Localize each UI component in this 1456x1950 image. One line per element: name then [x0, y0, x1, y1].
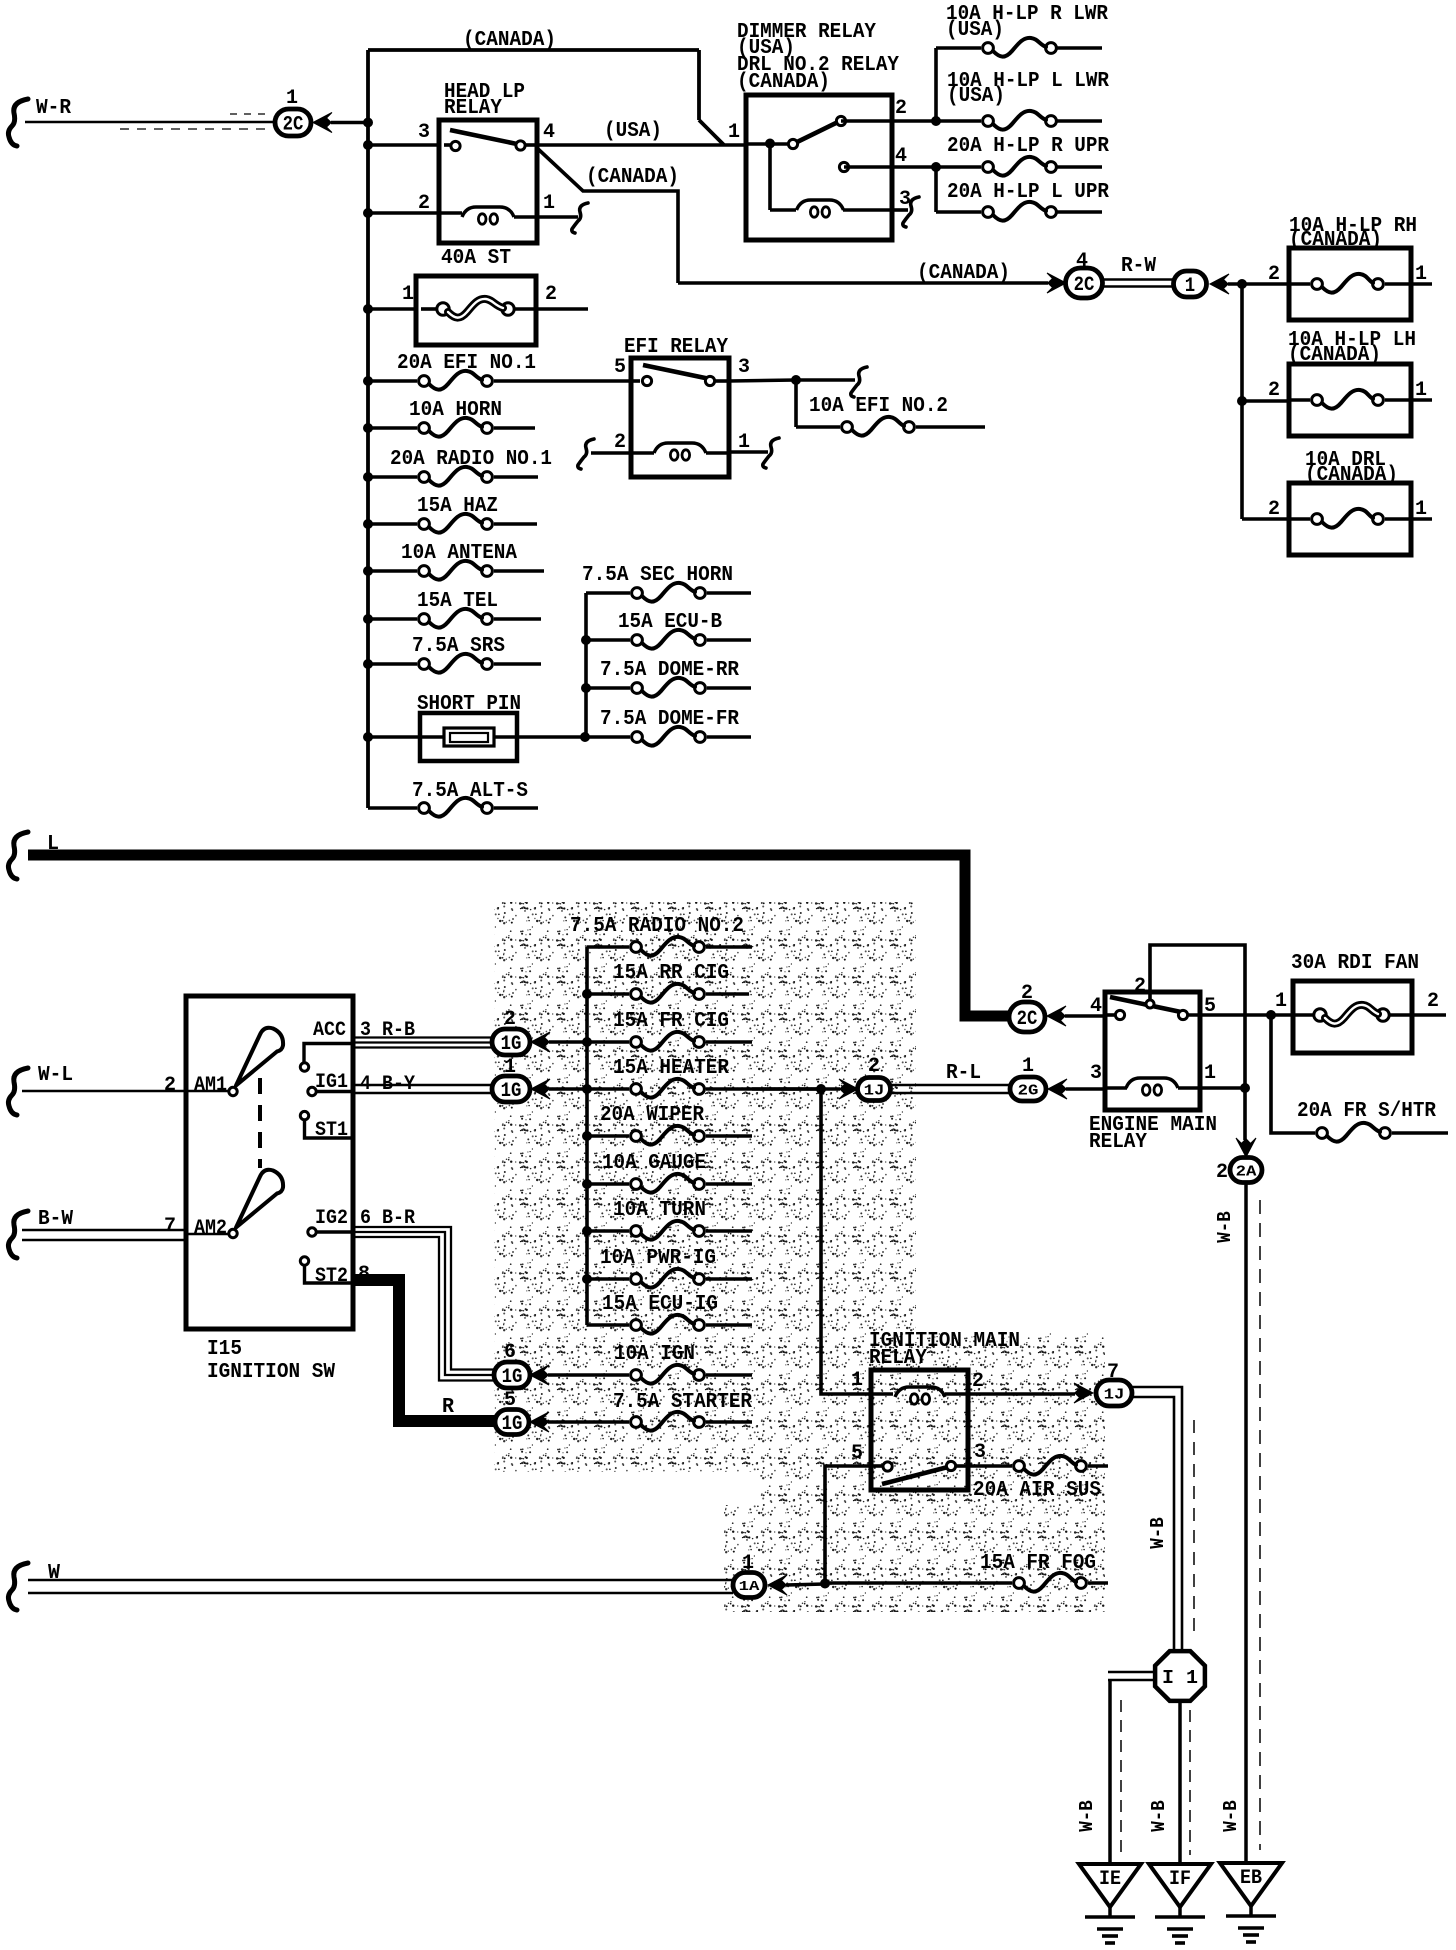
svg-text:7.5A DOME-FR: 7.5A DOME-FR: [600, 708, 739, 731]
svg-text:20A H-LP R UPR: 20A H-LP R UPR: [947, 135, 1109, 158]
svg-text:3: 3: [899, 188, 911, 211]
svg-text:AM1: AM1: [194, 1074, 227, 1097]
svg-text:10A TURN: 10A TURN: [613, 1199, 706, 1222]
svg-text:1: 1: [1415, 263, 1427, 286]
svg-text:ACC: ACC: [313, 1019, 346, 1042]
svg-text:RELAY: RELAY: [444, 97, 502, 120]
svg-text:2: 2: [545, 283, 557, 306]
svg-text:3: 3: [1090, 1062, 1102, 1085]
svg-text:1: 1: [402, 283, 414, 306]
svg-text:15A HEATER: 15A HEATER: [613, 1057, 729, 1080]
svg-text:(CANADA): (CANADA): [1305, 464, 1398, 487]
svg-text:1: 1: [286, 87, 298, 110]
svg-text:1G: 1G: [502, 1413, 523, 1436]
svg-text:W-R: W-R: [36, 97, 71, 120]
svg-text:1G: 1G: [501, 1033, 522, 1056]
svg-text:2: 2: [164, 1074, 176, 1097]
svg-text:7.5A SRS: 7.5A SRS: [412, 635, 505, 658]
svg-text:I15: I15: [207, 1338, 242, 1361]
svg-text:W-B: W-B: [1148, 1800, 1170, 1832]
svg-text:20A AIR SUS: 20A AIR SUS: [973, 1479, 1101, 1502]
svg-text:RELAY: RELAY: [869, 1347, 927, 1370]
svg-text:IE: IE: [1099, 1868, 1121, 1891]
svg-text:(USA): (USA): [947, 85, 1005, 108]
svg-text:10A GAUGE: 10A GAUGE: [602, 1152, 706, 1175]
svg-text:2: 2: [868, 1055, 880, 1078]
svg-text:7: 7: [164, 1215, 176, 1238]
svg-text:15A FR CIG: 15A FR CIG: [613, 1010, 729, 1033]
svg-text:W-B: W-B: [1214, 1211, 1236, 1243]
svg-text:2: 2: [1268, 498, 1280, 521]
svg-text:1G: 1G: [501, 1080, 522, 1103]
svg-text:15A HAZ: 15A HAZ: [417, 495, 498, 518]
svg-text:W-B: W-B: [1076, 1800, 1098, 1832]
svg-text:AM2: AM2: [194, 1217, 227, 1240]
svg-text:2: 2: [1216, 1161, 1228, 1184]
svg-text:15A FR FOG: 15A FR FOG: [980, 1552, 1096, 1575]
svg-text:IGNITION SW: IGNITION SW: [207, 1361, 335, 1384]
svg-text:2: 2: [1268, 263, 1280, 286]
svg-text:(USA): (USA): [604, 120, 662, 143]
svg-text:1J: 1J: [864, 1082, 885, 1099]
svg-text:(USA): (USA): [946, 19, 1004, 42]
svg-text:20A RADIO NO.1: 20A RADIO NO.1: [390, 448, 552, 471]
svg-text:1: 1: [728, 121, 740, 144]
svg-text:10A PWR-IG: 10A PWR-IG: [600, 1247, 716, 1270]
svg-text:EB: EB: [1240, 1867, 1262, 1890]
svg-text:1: 1: [1022, 1055, 1034, 1078]
svg-text:(CANADA): (CANADA): [917, 262, 1010, 285]
svg-text:2C: 2C: [1074, 274, 1095, 297]
svg-text:IF: IF: [1169, 1868, 1191, 1891]
svg-text:R: R: [442, 1396, 454, 1419]
svg-text:W: W: [48, 1562, 60, 1585]
svg-text:(CANADA): (CANADA): [1289, 229, 1382, 252]
svg-text:7.5A STARTER: 7.5A STARTER: [613, 1391, 752, 1414]
svg-text:2: 2: [1134, 975, 1146, 998]
svg-text:2G: 2G: [1018, 1082, 1039, 1099]
svg-text:3: 3: [738, 356, 750, 379]
svg-text:2C: 2C: [1017, 1008, 1038, 1031]
svg-text:10A ANTENA: 10A ANTENA: [401, 542, 517, 565]
svg-text:2C: 2C: [283, 114, 304, 137]
svg-text:7.5A ALT-S: 7.5A ALT-S: [412, 780, 528, 803]
svg-text:EFI RELAY: EFI RELAY: [624, 336, 728, 359]
svg-text:4: 4: [895, 145, 907, 168]
svg-text:7.5A RADIO NO.2: 7.5A RADIO NO.2: [570, 915, 744, 938]
svg-text:10A IGN: 10A IGN: [614, 1343, 695, 1366]
svg-text:W-B: W-B: [1147, 1517, 1169, 1549]
svg-text:7.5A DOME-RR: 7.5A DOME-RR: [600, 659, 739, 682]
svg-text:3: 3: [418, 121, 430, 144]
svg-text:1G: 1G: [502, 1366, 523, 1389]
svg-text:7.5A SEC HORN: 7.5A SEC HORN: [582, 564, 733, 587]
svg-text:15A ECU-IG: 15A ECU-IG: [602, 1293, 718, 1316]
svg-text:5: 5: [614, 356, 626, 379]
svg-text:SHORT PIN: SHORT PIN: [417, 693, 521, 716]
svg-text:15A TEL: 15A TEL: [417, 590, 498, 613]
svg-text:30A RDI FAN: 30A RDI FAN: [1291, 952, 1419, 975]
svg-text:1: 1: [1275, 990, 1287, 1013]
svg-text:I 1: I 1: [1162, 1667, 1198, 1689]
svg-text:IG2: IG2: [315, 1207, 348, 1230]
svg-text:15A RR CIG: 15A RR CIG: [613, 962, 729, 985]
svg-text:15A ECU-B: 15A ECU-B: [618, 611, 722, 634]
svg-text:20A WIPER: 20A WIPER: [600, 1104, 704, 1127]
svg-text:1: 1: [543, 192, 555, 215]
svg-text:1: 1: [1415, 498, 1427, 521]
svg-text:(CANADA): (CANADA): [586, 166, 679, 189]
svg-text:2A: 2A: [1236, 1163, 1257, 1180]
svg-text:2: 2: [972, 1370, 984, 1393]
svg-text:1J: 1J: [1104, 1386, 1125, 1403]
svg-text:40A ST: 40A ST: [441, 247, 511, 270]
svg-text:(CANADA): (CANADA): [463, 29, 556, 52]
svg-text:(CANADA): (CANADA): [737, 71, 830, 94]
svg-text:1: 1: [1415, 379, 1427, 402]
svg-text:1: 1: [1204, 1062, 1216, 1085]
svg-text:4: 4: [1090, 995, 1102, 1018]
svg-text:1: 1: [851, 1369, 863, 1392]
svg-text:10A EFI NO.2: 10A EFI NO.2: [809, 395, 948, 418]
svg-text:3: 3: [974, 1441, 986, 1464]
svg-text:1: 1: [1185, 275, 1195, 298]
svg-text:B-W: B-W: [38, 1208, 73, 1231]
svg-text:10A HORN: 10A HORN: [409, 399, 502, 422]
svg-text:W-B: W-B: [1220, 1800, 1242, 1832]
svg-text:2: 2: [1268, 379, 1280, 402]
svg-text:2: 2: [895, 97, 907, 120]
svg-text:(CANADA): (CANADA): [1288, 344, 1381, 367]
svg-text:R-W: R-W: [1121, 255, 1156, 278]
svg-text:W-L: W-L: [38, 1064, 73, 1087]
svg-text:2: 2: [1427, 990, 1439, 1013]
svg-text:4: 4: [543, 121, 555, 144]
svg-text:5: 5: [851, 1442, 863, 1465]
svg-text:20A FR S/HTR: 20A FR S/HTR: [1297, 1100, 1436, 1123]
svg-text:2: 2: [614, 431, 626, 454]
svg-text:20A EFI NO.1: 20A EFI NO.1: [397, 352, 536, 375]
svg-text:RELAY: RELAY: [1089, 1131, 1147, 1154]
svg-text:R-L: R-L: [946, 1062, 981, 1085]
svg-text:20A H-LP L UPR: 20A H-LP L UPR: [947, 181, 1109, 204]
svg-text:1A: 1A: [739, 1579, 761, 1595]
